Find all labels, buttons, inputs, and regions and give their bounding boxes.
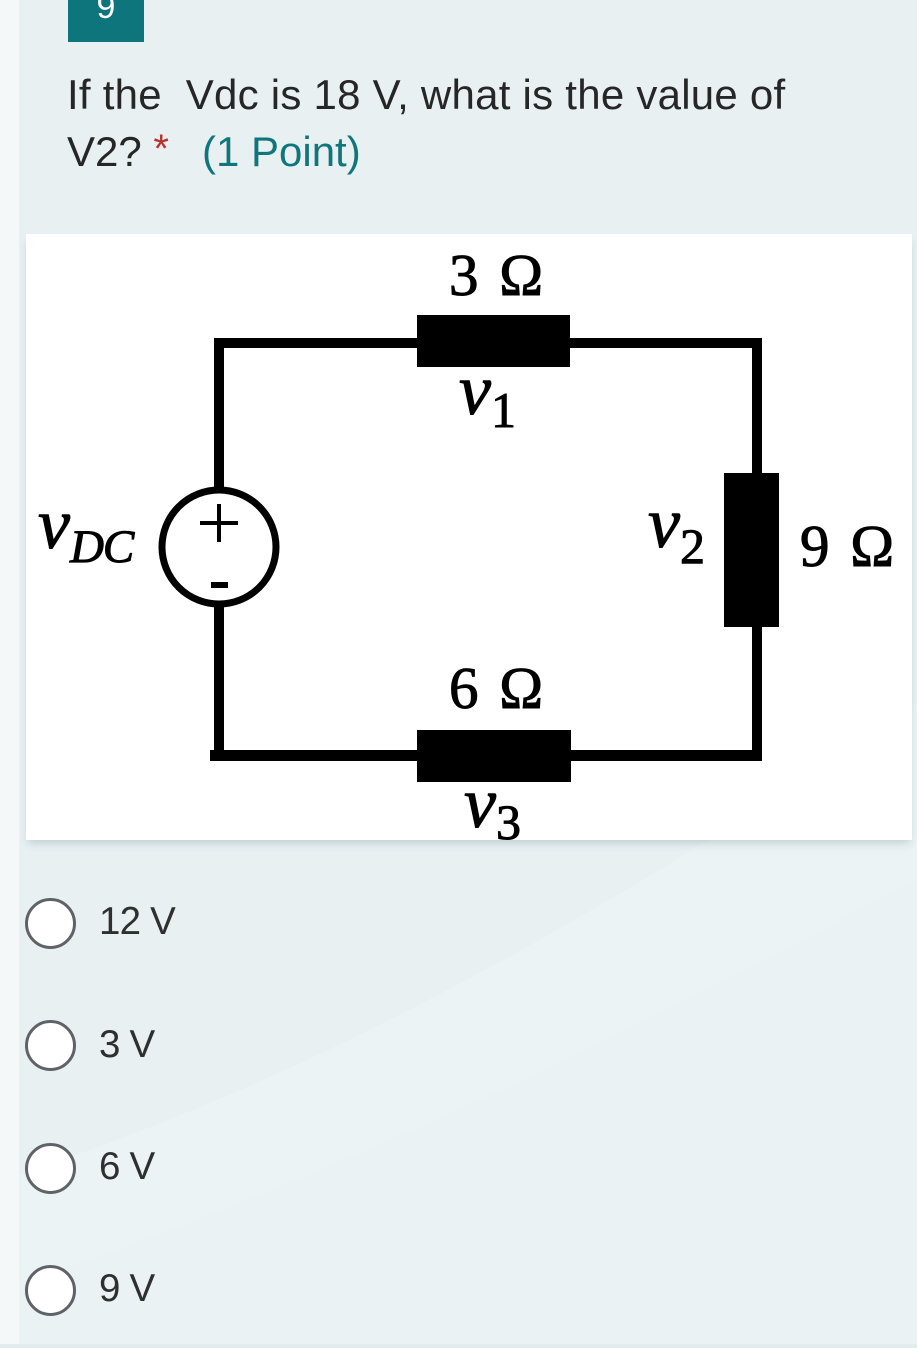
svg-text:9 Ω: 9 Ω: [800, 513, 897, 579]
minus sign of source: [211, 582, 228, 588]
wire bottom: [210, 750, 762, 761]
label 9 Ω: [800, 513, 897, 579]
left lighter strip: [0, 0, 19, 1348]
question number badge (9): [68, 0, 144, 42]
label vDC: [38, 484, 135, 573]
label 6 Ω: [449, 655, 546, 721]
label 3 Ω: [449, 242, 546, 308]
option radio 12 V: [25, 898, 76, 949]
voltage source VDC circle: [162, 490, 276, 604]
question text line 2: [67, 122, 361, 179]
white image panel: [26, 234, 912, 840]
plus sign of source: [200, 504, 238, 542]
label v2: [648, 483, 705, 574]
option radio 9 V: [25, 1265, 76, 1316]
option radio 6 V: [25, 1143, 76, 1194]
option radio 3 V: [25, 1020, 76, 1071]
question text line 1: [67, 67, 785, 122]
svg-text:3 Ω: 3 Ω: [449, 242, 546, 308]
svg-text:6 Ω: 6 Ω: [449, 655, 546, 721]
resistor R3 6Ω (bottom): [417, 730, 571, 782]
wire left lower: [214, 601, 224, 761]
svg-text:v2: v2: [648, 483, 705, 574]
resistor R1 3Ω (top): [417, 315, 570, 367]
wire left upper: [214, 338, 224, 493]
wire right: [752, 338, 762, 760]
resistor R2 9Ω (right): [724, 473, 779, 627]
wire top: [214, 338, 762, 348]
bottom edge strip: [0, 1344, 917, 1348]
svg-text:vDC: vDC: [38, 484, 135, 573]
label v3: [464, 763, 521, 850]
label v1: [459, 350, 516, 438]
